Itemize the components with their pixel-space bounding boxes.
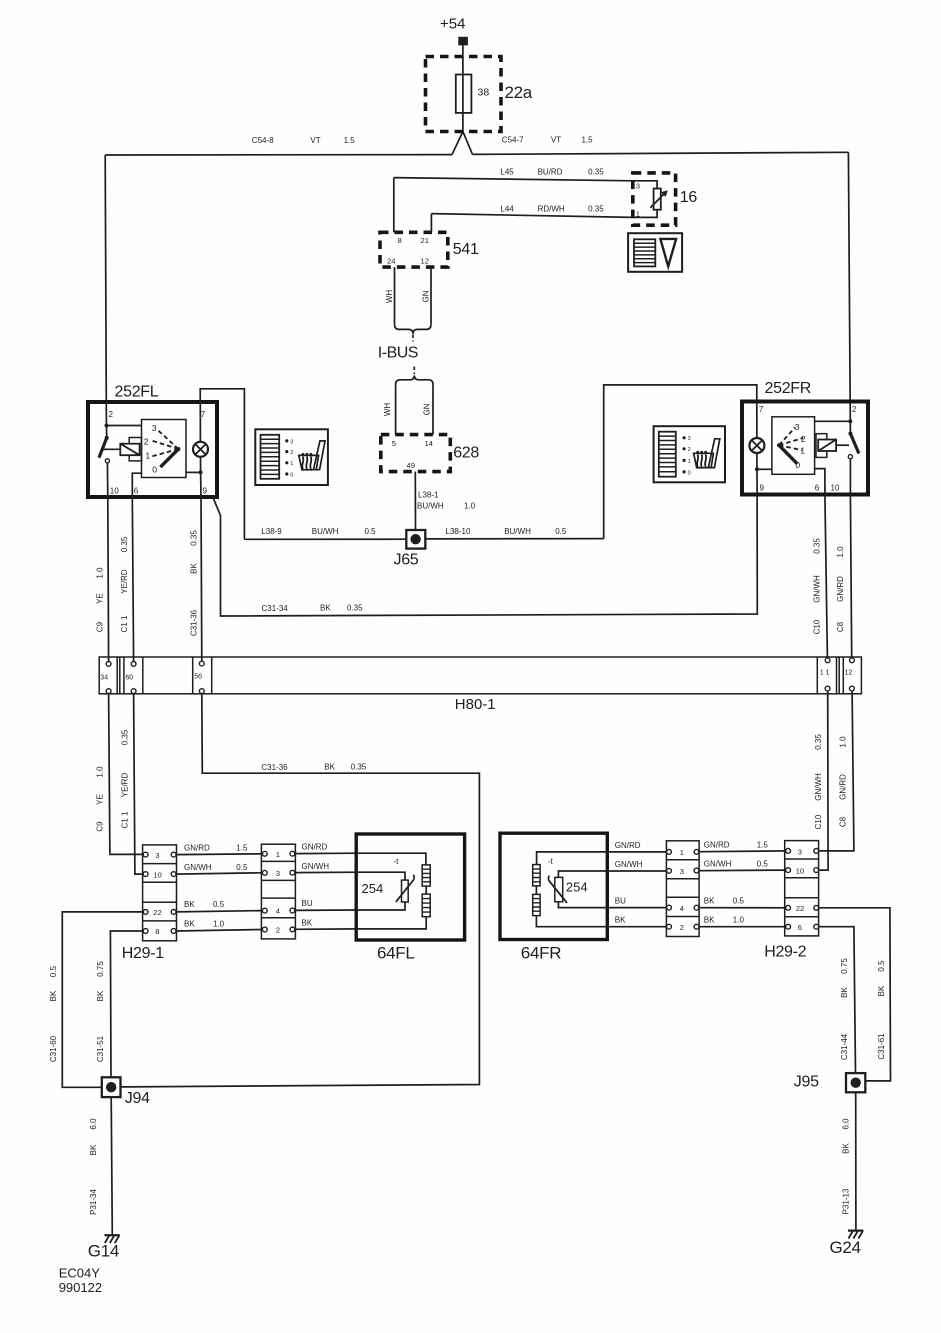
junction J95 [794,1073,866,1092]
svg-text:YE: YE [96,794,105,805]
control module 541 [380,232,479,267]
svg-text:3: 3 [636,182,640,191]
svg-text:P31-34: P31-34 [89,1189,98,1215]
node +54 supply [440,16,468,46]
wire +54 to fuse 22a [462,45,464,131]
svg-text:12: 12 [421,257,429,266]
svg-text:GN: GN [423,403,432,415]
svg-text:0.5: 0.5 [555,527,567,536]
svg-text:3: 3 [795,422,800,432]
connector strip 64FR harness [666,841,699,937]
svg-text:GN/WH: GN/WH [184,863,212,872]
svg-text:8: 8 [398,236,402,245]
svg-text:BK: BK [89,1144,98,1155]
indicator icon (lamp/triangle) below 16 [628,233,682,272]
svg-text:C8: C8 [839,816,848,827]
ground G14 [88,1235,120,1260]
svg-text:0: 0 [688,470,691,476]
svg-text:GN: GN [422,290,431,302]
svg-text:BK: BK [190,563,199,574]
wire L38-9 BU/WH [244,527,406,539]
wire H29-2 pin 22 to J95 (C31-61 BK 0.5) [819,908,891,1081]
svg-text:6: 6 [815,484,820,493]
svg-text:1.5: 1.5 [757,840,769,849]
svg-text:1.0: 1.0 [836,546,845,558]
svg-text:10: 10 [110,487,119,496]
junction J94 [102,1077,150,1107]
indicator icon panel left [255,429,328,485]
heating pad 64FL [356,834,464,963]
svg-text:BU/WH: BU/WH [417,502,444,511]
svg-text:3: 3 [276,869,280,878]
wire H29-1 pin 22 to J94 (C31-60 BK 0.5) [49,912,143,1087]
connector strip 64FL harness [261,844,295,939]
svg-text:2: 2 [109,410,114,419]
svg-text:WH: WH [385,290,394,304]
svg-text:BK: BK [96,990,105,1001]
wire H29-1 pin 22 to 64FL (BK 0.5 / BU) [176,899,356,912]
svg-text:H29-2: H29-2 [764,944,806,961]
svg-text:2: 2 [688,447,691,453]
wire H80-1 pin 34 to H29-1 pin 3 (C9 YE 1.0) [96,694,144,855]
252FL selector to pin 6 [132,473,141,497]
svg-text:YE/RD: YE/RD [120,569,129,594]
svg-text:H80-1: H80-1 [455,696,496,713]
svg-text:GN/RD: GN/RD [615,841,641,850]
wire C54-8 bus left [105,136,452,155]
svg-text:+54: +54 [440,16,465,33]
svg-text:0.35: 0.35 [351,763,367,772]
svg-text:C31-61: C31-61 [877,1033,886,1060]
svg-text:1.0: 1.0 [96,766,105,778]
wire bus to 252FL pin 2 [105,155,106,426]
svg-text:BK: BK [840,987,849,998]
svg-text:0.5: 0.5 [213,900,225,909]
svg-text:L44: L44 [500,204,514,213]
connector strip H29-1 [122,845,177,962]
svg-text:C54-8: C54-8 [252,136,274,145]
wire riser to 252FR pin 7 [604,385,757,539]
wire L38-10 BU/WH [425,527,603,539]
svg-text:L38-10: L38-10 [446,527,471,536]
svg-text:7: 7 [759,405,764,414]
252FR selector to pin 6 [815,469,825,495]
wire H29-1 pin 10 to 64FL (GN/WH 0.5) [176,862,356,874]
svg-text:1.0: 1.0 [839,736,848,748]
svg-text:BU: BU [302,899,313,908]
svg-text:22: 22 [796,904,804,913]
svg-text:C1 1: C1 1 [120,811,129,828]
svg-text:BU: BU [615,897,626,906]
svg-text:6.0: 6.0 [89,1118,98,1130]
svg-text:J65: J65 [394,552,419,569]
svg-text:P31-13: P31-13 [842,1188,851,1214]
svg-text:BK: BK [49,990,58,1001]
svg-text:6: 6 [798,923,802,932]
svg-text:3: 3 [152,423,157,433]
svg-text:1: 1 [680,848,684,857]
module 628 [381,435,480,472]
footer drawing number [59,1266,102,1296]
svg-text:BK: BK [324,763,335,772]
svg-text:22: 22 [153,908,161,917]
wire H29-1 pin 8 to J94 (C31-51 BK 0.75) [96,931,143,1077]
svg-text:C10: C10 [813,619,822,634]
svg-text:C54-7: C54-7 [502,136,524,145]
svg-text:RD/WH: RD/WH [538,204,565,213]
connector strip H80-1 [99,657,861,713]
svg-text:990122: 990122 [59,1280,102,1295]
svg-text:C1 1: C1 1 [120,615,129,632]
svg-text:C9: C9 [96,621,105,632]
svg-text:9: 9 [203,487,208,496]
svg-text:1.5: 1.5 [344,136,356,145]
svg-text:0.5: 0.5 [365,527,377,536]
svg-text:0.5: 0.5 [757,859,769,868]
svg-text:1.0: 1.0 [733,916,745,925]
svg-text:BK: BK [184,900,195,909]
wire 541 pin 12 GN [422,267,432,321]
252FL rotary selector [142,420,187,478]
svg-text:10: 10 [831,484,840,493]
svg-text:4: 4 [680,904,684,913]
svg-text:1.5: 1.5 [582,136,594,145]
svg-text:252FL: 252FL [115,384,159,401]
svg-text:J94: J94 [125,1090,150,1107]
wire L45 BU/RD to unit 16 pin 3 [394,168,633,233]
svg-text:0.35: 0.35 [120,729,129,745]
svg-text:3: 3 [680,867,684,876]
wire H29-1 pin 8 to 64FL (BK 1.0 / BK) [176,918,356,931]
svg-text:60: 60 [125,675,133,682]
svg-text:0.35: 0.35 [813,538,822,554]
svg-text:0.35: 0.35 [588,204,604,213]
svg-text:6.0: 6.0 [842,1118,851,1130]
svg-text:C8: C8 [836,621,845,632]
252FR illumination lamp [749,402,772,495]
svg-text:254: 254 [566,879,588,894]
wire I-BUS GN to 628 pin 14 [423,387,434,435]
svg-text:3: 3 [798,847,802,856]
wire L38-1 BU/WH 628 pin 49 to J65 [415,472,475,530]
svg-text:0.5: 0.5 [49,965,58,977]
svg-text:0: 0 [290,472,293,478]
svg-text:14: 14 [425,439,433,448]
svg-text:BK: BK [184,919,195,928]
svg-text:G24: G24 [830,1238,861,1257]
svg-text:2: 2 [276,926,280,935]
svg-text:GN/WH: GN/WH [814,773,823,801]
ground G24 [830,1231,864,1257]
H80-1 pin circles [106,658,854,694]
252FR rotary selector [772,417,815,475]
svg-text:10: 10 [796,867,804,876]
svg-text:BU/WH: BU/WH [312,527,339,536]
fuse box 22a [426,57,533,132]
svg-text:BK: BK [615,916,626,925]
rheostat unit 16 [633,173,698,225]
heating pad 64FR [500,833,607,962]
svg-text:G14: G14 [88,1242,119,1261]
I-BUS brace upper [378,322,431,362]
svg-text:WH: WH [383,403,392,417]
wire 252FL pin 10 to H80-1 pin 34 (C9 YE 1.0) [96,497,109,661]
svg-text:1: 1 [276,850,280,859]
svg-text:BK: BK [877,985,886,996]
svg-text:GN/WH: GN/WH [302,862,330,871]
svg-text:5: 5 [392,439,396,448]
wire C31-34 BK 252FL to 252FR pin 9 [213,495,757,617]
svg-text:0.35: 0.35 [814,734,823,750]
wire 64FR to H29-2 pin 6 (BK / BK 1.0) [607,916,785,927]
svg-text:2: 2 [680,923,684,932]
wire J94 to G14 (P31-34 BK 6.0) [89,1097,112,1234]
svg-text:3: 3 [688,436,691,442]
svg-text:1.0: 1.0 [213,919,225,928]
wire C54-7 bus right [473,136,849,155]
svg-text:3: 3 [290,439,293,445]
svg-text:254: 254 [362,881,384,896]
indicator icon panel right [654,426,725,482]
svg-text:EC04Y: EC04Y [59,1266,101,1281]
heated seat switch 252FL [88,384,217,498]
wire H80-1 pin 60 to H29-1 pin 10 (C1 YE/RD 0.35) [120,694,143,875]
svg-text:0.5: 0.5 [877,960,886,972]
svg-text:YE: YE [96,593,105,604]
svg-text:VT: VT [310,136,320,145]
svg-text:4: 4 [276,907,280,916]
svg-text:BK: BK [302,918,313,927]
svg-text:56: 56 [194,674,202,681]
svg-text:0.35: 0.35 [190,530,199,546]
svg-text:1 1: 1 1 [820,670,830,677]
svg-text:541: 541 [453,241,479,258]
svg-text:H29-1: H29-1 [122,945,164,962]
svg-text:GN/WH: GN/WH [704,859,732,868]
svg-text:1.0: 1.0 [464,502,476,511]
svg-text:C31-51: C31-51 [96,1035,105,1062]
wire 252FL pin 7 riser [200,389,244,540]
svg-text:0.35: 0.35 [588,168,604,177]
svg-text:252FR: 252FR [765,380,812,397]
svg-text:0.35: 0.35 [347,604,363,613]
wire 64FR to H29-2 pin 22 (BU / BK 0.5) [607,897,785,908]
junction J65 [394,530,426,569]
svg-text:0.35: 0.35 [120,536,129,552]
svg-text:C31-36: C31-36 [190,609,199,636]
svg-text:0: 0 [152,465,157,475]
svg-text:BU/WH: BU/WH [504,527,531,536]
svg-text:1.5: 1.5 [236,844,248,853]
svg-text:BK: BK [704,897,715,906]
svg-text:GN/WH: GN/WH [615,860,643,869]
svg-text:0.5: 0.5 [236,863,248,872]
wire H29-2 pin 3 to H80-1 pin 12 [819,691,854,851]
svg-text:YE/RD: YE/RD [120,773,129,798]
svg-text:BU/RD: BU/RD [538,168,563,177]
wire 64FR to H29-2 pin 3 (GN/RD 1.5) [607,840,785,852]
svg-text:GN/RD: GN/RD [302,843,328,852]
svg-text:GN/RD: GN/RD [704,840,730,849]
svg-text:21: 21 [421,236,429,245]
svg-text:628: 628 [453,445,479,462]
svg-text:L38-1: L38-1 [418,491,439,500]
wire H29-1 pin 3 to 64FL (GN/RD 1.5) [176,843,356,855]
svg-text:C31-44: C31-44 [840,1033,849,1060]
svg-text:1: 1 [290,461,293,467]
connector strip H29-2 [764,841,818,961]
svg-text:C31-36: C31-36 [261,763,288,772]
svg-text:0.5: 0.5 [733,897,745,906]
svg-text:38: 38 [478,87,490,99]
svg-text:J95: J95 [794,1074,819,1091]
svg-text:L45: L45 [500,168,514,177]
svg-text:C31-60: C31-60 [49,1035,58,1062]
wire H80-1 pin 56 to J94 (C31-36 BK 0.35) [121,694,480,1087]
svg-text:16: 16 [680,189,698,206]
svg-text:GN/RD: GN/RD [184,844,210,853]
wire I-BUS WH to 628 pin 5 [383,387,396,435]
svg-text:I-BUS: I-BUS [378,345,418,362]
wire 541 pin 24 WH [385,267,395,321]
svg-text:7: 7 [201,410,206,419]
svg-text:C31-34: C31-34 [262,604,289,613]
wire J95 to G24 (P31-13 BK 6.0) [842,1092,856,1230]
svg-text:VT: VT [551,136,561,145]
heated seat switch 252FR [742,380,868,495]
wire H29-2 pin 10 to H80-1 pin 11 [819,691,828,870]
wire 252FL pin 6 to H80-1 pin 60 (C1 YE/RD 0.35) [120,497,134,661]
svg-text:34: 34 [100,675,108,682]
svg-text:12: 12 [845,670,853,677]
wire 252FL pin 9 to H80-1 pin 56 (C31-36 BK 0.35) [190,497,202,661]
svg-text:64FL: 64FL [377,944,415,963]
svg-text:24: 24 [387,257,395,266]
svg-text:3: 3 [155,851,159,860]
svg-text:1.0: 1.0 [96,567,105,579]
svg-text:C10: C10 [814,814,823,829]
svg-text:0.75: 0.75 [840,958,849,974]
svg-text:1: 1 [688,459,691,465]
label C8 GN/RD 1.0 below H80-1 [839,736,848,827]
wire V-split under fuse [452,132,473,155]
wire H29-2 pin 6 to J95 (C31-44 BK 0.75) [819,927,856,1073]
svg-text:64FR: 64FR [521,944,561,963]
svg-text:22a: 22a [505,83,533,102]
svg-text:BK: BK [704,916,715,925]
svg-text:8: 8 [155,927,159,936]
svg-text:GN/WH: GN/WH [813,575,822,603]
svg-text:2: 2 [144,436,149,446]
252FL illumination lamp [186,402,208,497]
252FL switch contact pin2/pin10 [99,424,142,498]
I-BUS brace lower [396,367,433,387]
wire 64FR to H29-2 pin 10 (GN/WH 0.5) [607,859,785,871]
svg-text:C9: C9 [96,821,105,832]
svg-text:GN/RD: GN/RD [836,576,845,602]
252FR switch contact pin2/pin10 [815,419,859,494]
252FR relay coil [816,434,849,458]
svg-text:2: 2 [290,450,293,456]
svg-text:-t: -t [394,857,400,866]
wire L44 RD/WH to unit 16 pin 1 [431,204,632,232]
252FL relay coil [103,438,142,461]
svg-text:10: 10 [153,870,161,879]
svg-text:0.75: 0.75 [96,961,105,977]
wire bus to 252FR pin 2 [848,152,850,421]
svg-text:BK: BK [842,1143,851,1154]
svg-text:49: 49 [407,461,415,470]
svg-text:9: 9 [760,484,765,493]
svg-text:-t: -t [548,857,554,866]
svg-text:6: 6 [134,487,139,496]
svg-text:GN/RD: GN/RD [839,774,848,800]
wire 252FR pin 10 to H80-1 pin 12 (C8 GN/RD 1.0) [836,495,852,658]
svg-text:1: 1 [145,451,150,461]
label C10 GN/WH 0.35 below H80-1 [814,734,823,830]
wire 252FR pin 6 to H80-1 pin 11 (C10 GN/WH 0.35) [813,495,828,658]
svg-text:2: 2 [852,405,857,414]
svg-text:L38-9: L38-9 [261,527,282,536]
svg-text:BK: BK [320,604,331,613]
